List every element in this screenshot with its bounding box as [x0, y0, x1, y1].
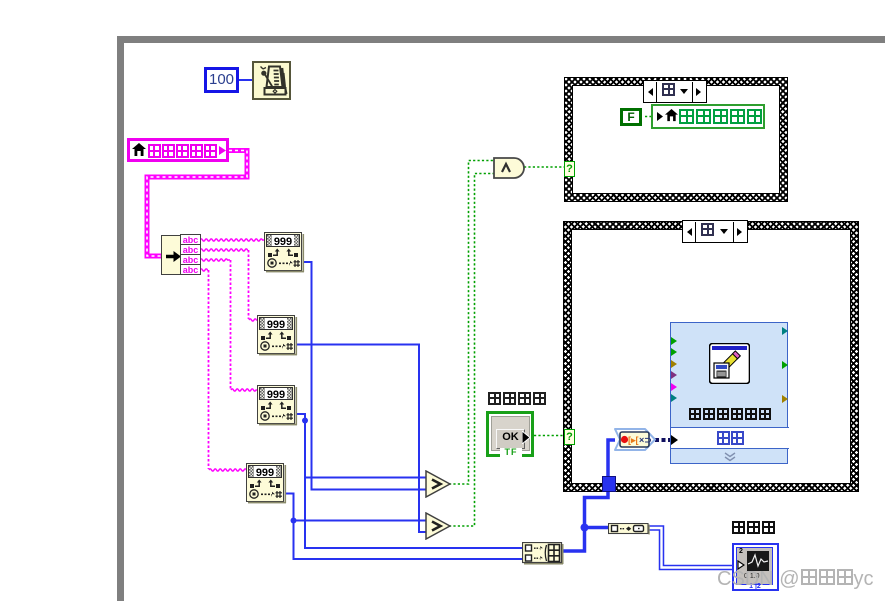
svg-text:abc: abc [183, 245, 199, 255]
svg-text:×⊃: ×⊃ [639, 435, 652, 445]
svg-text:abc: abc [183, 235, 199, 245]
svg-text:[▸[: [▸[ [628, 435, 639, 445]
svg-text:abc: abc [183, 265, 199, 275]
svg-text:abc: abc [183, 255, 199, 265]
